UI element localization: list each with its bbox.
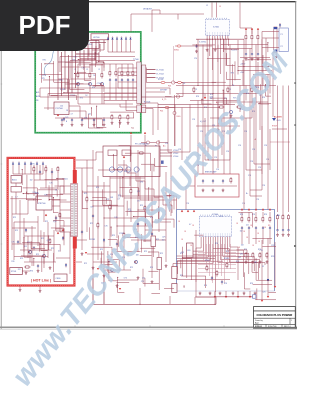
svg-text:C76: C76: [244, 131, 247, 133]
wire: [141, 163, 154, 165]
ground: [202, 189, 205, 192]
wire: [47, 94, 49, 111]
wire: [63, 228, 65, 239]
svg-text:102: 102: [88, 114, 91, 116]
svg-text:5VSTBY: 5VSTBY: [160, 90, 168, 92]
wire: [226, 78, 240, 80]
wire: [63, 221, 65, 227]
IC7502 main switching regulator: [36, 196, 52, 210]
bead inductor FB7603: [157, 161, 160, 164]
svg-text:4.7: 4.7: [15, 196, 17, 198]
svg-text:IC7600: IC7600: [212, 214, 218, 216]
wire: [62, 66, 91, 68]
wire: [251, 94, 253, 119]
wire: [76, 261, 82, 263]
svg-text:R76: R76: [30, 270, 33, 272]
ground: [103, 274, 106, 277]
wire: [244, 288, 250, 290]
wire: [40, 230, 42, 250]
wire fanout right: [230, 240, 238, 247]
wire: [38, 189, 57, 191]
wire: [125, 152, 151, 154]
wire: [169, 88, 171, 95]
wire: [261, 67, 263, 191]
wire: [246, 169, 262, 171]
wire: [265, 95, 271, 97]
wire: [33, 165, 35, 196]
wire: [91, 52, 93, 72]
ground: [151, 280, 154, 283]
svg-text:CN00: CN00: [56, 278, 61, 280]
wire: [54, 185, 64, 187]
wire: [14, 256, 48, 258]
power flag (red arrow): [262, 209, 264, 211]
wire: [212, 244, 214, 283]
wire: [215, 244, 217, 262]
svg-text:D76: D76: [114, 217, 117, 219]
frame zone tick: [223, 325, 225, 327]
wire: [272, 128, 287, 130]
svg-text:102: 102: [238, 257, 241, 259]
wire: [205, 159, 230, 161]
wire: [118, 81, 137, 83]
wire: [255, 45, 257, 67]
bus wire: [196, 38, 244, 40]
ground: [165, 264, 168, 267]
svg-text:C76: C76: [165, 143, 168, 145]
wire: [122, 237, 143, 239]
wire: [198, 272, 236, 274]
wire: [91, 42, 93, 52]
junction: [183, 285, 184, 286]
filter choke L7501: [11, 187, 22, 193]
wire: [43, 210, 45, 222]
wire: [186, 254, 188, 278]
wire: [131, 13, 204, 15]
wire: [231, 64, 233, 85]
svg-text:J3: J3: [219, 6, 221, 8]
wire: [243, 39, 245, 66]
wire: [60, 209, 71, 211]
wire fanout left: [196, 240, 201, 248]
resistor R7671: [218, 106, 225, 108]
svg-text:C75: C75: [74, 56, 77, 58]
wire: [186, 185, 195, 187]
wire: [207, 49, 209, 86]
svg-text:Q75: Q75: [162, 237, 165, 239]
wire: [207, 86, 209, 161]
wire: [177, 258, 216, 260]
wire: [76, 159, 96, 161]
wire: [60, 217, 71, 219]
wire: [101, 119, 103, 126]
ground: [127, 121, 130, 124]
wire IC7601 pin 3: [212, 39, 214, 70]
wire: [155, 165, 168, 167]
svg-text:H_DRV: H_DRV: [231, 50, 238, 52]
resistor R7541: [45, 166, 47, 173]
wire: [55, 216, 57, 231]
svg-text:R75: R75: [80, 97, 83, 99]
wire: [23, 187, 38, 189]
wire: [41, 63, 43, 83]
svg-text:D76: D76: [59, 79, 62, 81]
wire: [159, 10, 161, 14]
wire: [111, 247, 113, 258]
ground: [19, 288, 22, 291]
ground: [137, 276, 140, 279]
wire: [130, 41, 132, 52]
wire: [76, 53, 99, 55]
junction: [265, 84, 266, 85]
ground: [209, 292, 212, 295]
wire: [81, 168, 83, 250]
resistor R7633: [266, 252, 268, 259]
capacitor C7572: [116, 242, 118, 247]
svg-text:C75: C75: [128, 210, 131, 212]
wire: [259, 102, 261, 130]
wire: [172, 264, 174, 273]
wire: [120, 106, 137, 108]
wire: [246, 250, 248, 260]
wire riser: [139, 288, 141, 304]
svg-text:102: 102: [30, 180, 33, 182]
wire IC7601 pin 2: [209, 39, 211, 56]
wire: [45, 165, 47, 188]
ground return (red): [214, 296, 216, 298]
power flag +B standby: [57, 114, 59, 116]
junction: [44, 63, 45, 64]
resistor R7652: [257, 34, 259, 41]
resistor R7631: [252, 252, 254, 259]
wire: [239, 86, 241, 113]
staircase wire run: [118, 165, 172, 213]
wire: [52, 197, 54, 212]
wire: [282, 86, 284, 219]
wire: [223, 103, 229, 105]
svg-text:R75: R75: [45, 221, 48, 223]
wire: [23, 193, 37, 195]
wire: [224, 244, 226, 283]
connector pin CN7501-2: [176, 95, 179, 98]
resistor R7561: [138, 152, 145, 154]
wire: [58, 78, 95, 80]
wire: [112, 155, 114, 170]
diode D7505: [63, 117, 65, 121]
ground: [257, 57, 260, 60]
wire: [202, 86, 204, 175]
wire: [218, 244, 220, 269]
ground return (red): [204, 97, 206, 99]
wire: [121, 41, 123, 52]
wire riser: [169, 296, 171, 304]
wire: [175, 82, 183, 84]
wire: [28, 193, 38, 195]
wire: [40, 243, 60, 245]
wire: [82, 208, 88, 210]
svg-text:ACL: ACL: [36, 91, 40, 94]
capacitor C7652: [221, 280, 223, 285]
wire: [141, 149, 172, 151]
junction: [256, 258, 257, 259]
wire: [255, 212, 257, 216]
wire: [108, 238, 117, 240]
wire: [276, 52, 278, 57]
svg-text:R75: R75: [231, 73, 234, 75]
wire: [243, 272, 245, 289]
wire: [94, 49, 96, 61]
wire: [243, 67, 245, 210]
svg-text:222: 222: [18, 269, 21, 271]
wire: [103, 62, 105, 68]
junction: [96, 62, 97, 63]
wire: [174, 105, 176, 147]
wire: [121, 64, 123, 70]
wire: [116, 251, 140, 253]
wire: [225, 291, 227, 296]
wire: [216, 3, 218, 18]
resistor pack RP7601: [172, 267, 177, 279]
wire: [108, 271, 116, 273]
svg-text:X01: X01: [187, 250, 190, 252]
wire: [107, 251, 109, 272]
wire: [82, 191, 117, 193]
wire: [34, 179, 58, 181]
bus wire: [176, 93, 260, 95]
wire: [261, 240, 263, 300]
svg-text:C76: C76: [242, 203, 245, 205]
wire: [93, 85, 104, 87]
wire: [221, 44, 268, 46]
wire: [227, 244, 229, 262]
frame zone tick: [1, 163, 3, 165]
ground: [61, 123, 64, 126]
wire: [69, 232, 71, 262]
svg-text:P2: P2: [281, 46, 283, 48]
diode D7556: [25, 228, 27, 232]
junction: [96, 106, 97, 107]
diode D7504: [125, 37, 127, 41]
wire: [201, 99, 203, 104]
wire: [109, 64, 111, 70]
ground: [287, 233, 290, 236]
power flag +B: [57, 232, 59, 234]
wire fanout right: [220, 240, 259, 260]
wire fanout left: [187, 240, 206, 255]
wire: [183, 286, 185, 288]
title block divider: [289, 318, 291, 324]
wire: [21, 170, 23, 185]
wire: [39, 165, 41, 180]
capacitor C7531: [71, 118, 73, 123]
wire: [140, 247, 155, 249]
svg-text:R75: R75: [73, 59, 76, 61]
wire: [158, 107, 220, 109]
transistor Q7572: [110, 268, 113, 271]
diode D7502: [116, 37, 118, 41]
wire: [39, 88, 41, 97]
wire: [206, 244, 208, 269]
wire: [83, 64, 85, 80]
resistor R7512: [101, 72, 103, 79]
wire: [261, 32, 263, 67]
wire: [251, 41, 253, 52]
wire: [158, 252, 160, 269]
junction: [209, 39, 210, 40]
svg-text:C76: C76: [216, 169, 219, 171]
transformer T7501 core line: [73, 184, 75, 237]
svg-text:R75: R75: [150, 267, 153, 269]
relay coil winding 1: [109, 167, 114, 172]
junction: [148, 187, 149, 188]
wire: [74, 72, 95, 74]
resistor R7690: [193, 87, 195, 94]
svg-text:R75: R75: [100, 249, 103, 251]
wire: [173, 46, 175, 83]
IC7501 standby controller: [84, 41, 99, 49]
resistor R7620: [241, 216, 243, 223]
wire: [26, 199, 35, 201]
wire: [139, 177, 141, 201]
svg-text:R75: R75: [160, 253, 163, 255]
svg-text:222: 222: [246, 224, 249, 226]
wire: [66, 79, 68, 93]
junction: [78, 59, 79, 60]
wire: [85, 111, 87, 118]
fuse F7603: [178, 81, 182, 83]
wire: [25, 192, 27, 200]
wire: [109, 190, 111, 246]
wire: [57, 172, 59, 190]
svg-text:C76: C76: [256, 199, 259, 201]
wire: [190, 251, 192, 280]
wire: [118, 75, 137, 77]
wire: [109, 83, 111, 101]
wire: [274, 242, 276, 286]
wire: [48, 93, 137, 95]
svg-text:D7583: D7583: [90, 239, 95, 241]
wire: [75, 46, 77, 88]
transistor Q7501: [28, 250, 31, 253]
wire IC7601 pin 8: [225, 39, 227, 66]
wire: [100, 258, 102, 268]
svg-text:1: 1: [291, 320, 292, 322]
diode D7601: [18, 162, 20, 166]
wire: [13, 222, 15, 260]
capacitor C7549: [55, 216, 57, 221]
junction: [63, 92, 64, 93]
svg-text:D76: D76: [65, 117, 68, 119]
ground return (red): [249, 296, 251, 298]
wire riser: [103, 270, 105, 304]
wire: [147, 77, 156, 79]
wire: [262, 47, 279, 49]
transformer T7500 core: [140, 61, 142, 113]
svg-text:DEG: DEG: [177, 116, 181, 118]
svg-text:STR7500: STR7500: [38, 203, 46, 205]
fuse F7601: [177, 45, 181, 47]
ground: [245, 260, 248, 263]
wire: [12, 227, 36, 229]
transformer T7500 aux winding: [137, 105, 141, 113]
wire: [53, 212, 58, 214]
IC7604 pin cap bottom: [274, 50, 278, 52]
wire: [288, 221, 290, 228]
wire: [134, 216, 153, 218]
resistor R7642: [287, 214, 289, 221]
wire: [118, 71, 137, 73]
resistor R7623: [262, 216, 264, 223]
svg-text:BD01: BD01: [12, 179, 17, 181]
wire: [230, 244, 232, 269]
resistor R7672: [236, 106, 243, 108]
transistor Q7502: [100, 82, 103, 85]
svg-text:L7502: L7502: [173, 153, 178, 155]
power flag +B main: [123, 156, 125, 158]
wire: [46, 194, 63, 196]
resistor R7650: [245, 34, 247, 41]
wire: [241, 212, 243, 216]
wire: [248, 212, 250, 216]
transistor Q7501: [88, 82, 91, 85]
svg-text:Appr.: Appr.: [255, 321, 260, 324]
wire: [148, 270, 158, 272]
wire: [63, 186, 65, 193]
wire: [15, 183, 17, 187]
wire: [27, 200, 29, 214]
wire: [217, 45, 219, 94]
svg-text:R76: R76: [215, 243, 218, 245]
junction: [214, 304, 215, 305]
transformer T7500 aux secondary: [142, 105, 146, 113]
svg-text:E_T502: E_T502: [157, 73, 165, 75]
wire: [237, 261, 259, 263]
ground return (red): [119, 288, 121, 290]
wire: [63, 178, 65, 193]
title block bottom row: [254, 323, 296, 325]
junction: [103, 217, 104, 218]
wire: [15, 192, 17, 214]
wire: [203, 244, 205, 262]
wire: [118, 292, 125, 294]
wire: [95, 152, 97, 160]
wire: [31, 226, 33, 266]
capacitor C7523: [127, 78, 129, 83]
resistor R7573: [130, 188, 132, 195]
wire: [222, 90, 224, 104]
wire: [195, 230, 197, 297]
wire: [116, 239, 118, 251]
resistor R7524: [132, 70, 134, 77]
wire: [39, 73, 62, 75]
wire: [185, 186, 187, 210]
connector CN7500: [54, 274, 67, 282]
wire: [36, 166, 38, 174]
svg-text:E_T5: E_T5: [162, 99, 166, 101]
mains fuse F7501: [10, 268, 22, 275]
wire: [87, 44, 89, 60]
wire IC7601 pin 9: [228, 39, 230, 46]
svg-text:J2: J2: [206, 5, 208, 7]
resistor R7572: [109, 204, 111, 211]
wire: [78, 59, 96, 61]
diode D7501: [111, 37, 113, 41]
ground: [93, 123, 96, 126]
wire: [237, 40, 239, 75]
wire: [69, 110, 86, 112]
svg-text:D76: D76: [210, 97, 213, 99]
wire: [60, 225, 71, 227]
